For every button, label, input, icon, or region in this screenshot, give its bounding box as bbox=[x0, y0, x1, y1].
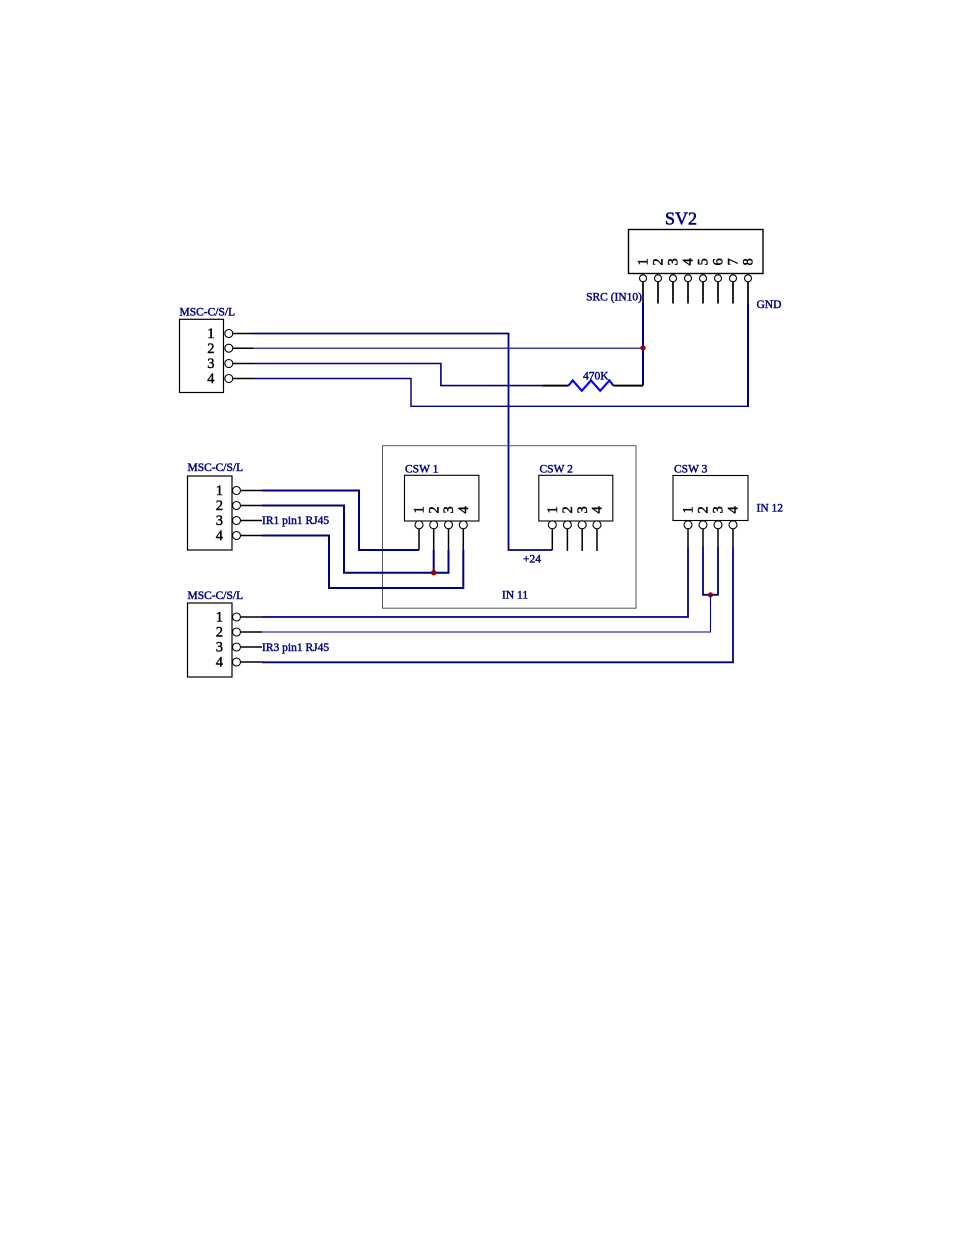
MSC3 pin stubs bbox=[241, 617, 263, 662]
svg-text:2: 2 bbox=[651, 258, 667, 265]
SV2 pin stubs bbox=[643, 282, 748, 304]
group box IN 11 bbox=[383, 446, 637, 609]
wire SRC net: SV2 pin1 down to resistor bbox=[642, 304, 644, 386]
SV2 pin circles bbox=[640, 275, 752, 282]
CSW2 pin circles bbox=[548, 521, 601, 529]
svg-text:3: 3 bbox=[711, 506, 727, 513]
svg-text:3: 3 bbox=[216, 513, 223, 529]
wire GND net: MSC1 pin4 to SV2 pin8 bbox=[253, 379, 748, 407]
connector MSC2 body bbox=[188, 476, 233, 550]
svg-text:4: 4 bbox=[456, 506, 472, 514]
MSC3 pin numbers 1-4 bbox=[216, 610, 224, 671]
wire CSW1 pin2 drop to junction bbox=[433, 550, 435, 573]
svg-text:2: 2 bbox=[426, 506, 442, 513]
svg-text:CSW 2: CSW 2 bbox=[540, 464, 574, 476]
svg-text:2: 2 bbox=[216, 498, 223, 514]
MSC3 pin circles bbox=[233, 613, 241, 666]
svg-text:3: 3 bbox=[441, 506, 457, 513]
connector MSC1 body bbox=[180, 319, 224, 392]
wire CSW3 pin2-pin3 bridge bbox=[703, 547, 718, 595]
svg-text:2: 2 bbox=[696, 506, 712, 513]
svg-text:MSC-C/S/L: MSC-C/S/L bbox=[188, 590, 244, 602]
svg-text:IN 11: IN 11 bbox=[502, 590, 528, 602]
svg-text:3: 3 bbox=[575, 506, 591, 513]
resistor 470K left lead bbox=[542, 385, 569, 387]
svg-text:CSW 3: CSW 3 bbox=[674, 464, 708, 476]
wire CSW3 junction to MSC3 pin2 bbox=[262, 595, 711, 632]
MSC1 pin numbers 1-4 bbox=[207, 326, 215, 387]
CSW2 pin stubs bbox=[552, 529, 597, 551]
svg-text:5: 5 bbox=[696, 258, 712, 265]
wire MSC1 pin2 to SRC junction bbox=[253, 347, 643, 349]
svg-text:1: 1 bbox=[681, 506, 697, 513]
svg-text:1: 1 bbox=[207, 326, 214, 342]
CSW1 pin stubs bbox=[419, 529, 463, 550]
svg-text:470K: 470K bbox=[583, 371, 609, 383]
svg-text:1: 1 bbox=[636, 258, 652, 265]
svg-text:SV2: SV2 bbox=[665, 209, 697, 229]
svg-text:1: 1 bbox=[216, 483, 223, 499]
svg-text:4: 4 bbox=[216, 655, 224, 671]
wire MSC1 pin3 to resistor left lead bbox=[253, 364, 542, 386]
svg-text:CSW 1: CSW 1 bbox=[405, 464, 439, 476]
svg-text:GND: GND bbox=[757, 299, 782, 311]
svg-text:2: 2 bbox=[207, 341, 214, 357]
CSW3 pin numbers 1-4 bbox=[681, 506, 742, 514]
svg-text:1: 1 bbox=[412, 506, 428, 513]
svg-text:+24: +24 bbox=[523, 554, 541, 566]
svg-text:SRC (IN10): SRC (IN10) bbox=[586, 292, 642, 304]
svg-text:MSC-C/S/L: MSC-C/S/L bbox=[180, 307, 236, 319]
resistor 470K right lead bbox=[613, 385, 643, 387]
wire CSW3 pin4 to MSC3 pin4 bbox=[262, 547, 733, 662]
junction dot CSW3 pins 2-3 bbox=[708, 592, 713, 597]
svg-text:8: 8 bbox=[741, 258, 757, 265]
resistor 470K body bbox=[569, 380, 614, 390]
svg-text:4: 4 bbox=[216, 528, 224, 544]
wire MSC2 pin2 to CSW1 pin3 bbox=[262, 506, 449, 573]
svg-text:4: 4 bbox=[207, 371, 215, 387]
MSC1 pin circles bbox=[225, 330, 233, 383]
svg-text:1: 1 bbox=[216, 610, 223, 626]
svg-text:IR1 pin1 RJ45: IR1 pin1 RJ45 bbox=[262, 515, 329, 527]
wire CSW3 pin1 to MSC3 pin1 bbox=[262, 547, 688, 617]
MSC1 pin stubs bbox=[233, 334, 254, 379]
switch CSW1 body bbox=[405, 475, 479, 521]
svg-text:7: 7 bbox=[726, 258, 742, 265]
CSW2 pin numbers 1-4 bbox=[545, 506, 606, 514]
svg-text:IR3 pin1 RJ45: IR3 pin1 RJ45 bbox=[262, 642, 329, 654]
svg-text:3: 3 bbox=[666, 258, 682, 265]
junction dot CSW1 pin2 bbox=[431, 570, 436, 575]
wire MSC1 pin1 to CSW2 pin1 bbox=[253, 334, 552, 551]
switch CSW2 body bbox=[539, 475, 613, 521]
svg-text:3: 3 bbox=[216, 640, 223, 656]
svg-text:4: 4 bbox=[590, 506, 606, 514]
svg-text:MSC-C/S/L: MSC-C/S/L bbox=[188, 462, 244, 474]
svg-text:4: 4 bbox=[681, 258, 697, 266]
connector SV2 body bbox=[629, 230, 764, 274]
svg-text:1: 1 bbox=[545, 506, 561, 513]
svg-text:2: 2 bbox=[560, 506, 576, 513]
CSW1 pin circles bbox=[415, 521, 467, 529]
switch CSW3 body bbox=[673, 476, 748, 521]
junction dot SRC net bbox=[640, 345, 645, 350]
wire MSC2 pin1 to CSW1 pin1 bbox=[262, 491, 419, 551]
CSW3 pin stubs bbox=[688, 529, 733, 547]
SV2 pin numbers 1-8 bbox=[636, 258, 757, 266]
MSC2 pin circles bbox=[233, 487, 241, 540]
wire MSC2 pin4 to CSW1 pin4 bbox=[262, 536, 463, 589]
connector MSC3 body bbox=[188, 603, 233, 677]
svg-text:6: 6 bbox=[711, 258, 727, 265]
CSW3 pin circles bbox=[684, 521, 737, 529]
MSC2 pin stubs bbox=[241, 491, 263, 536]
svg-text:4: 4 bbox=[726, 506, 742, 514]
CSW1 pin numbers 1-4 bbox=[412, 506, 472, 514]
svg-text:2: 2 bbox=[216, 625, 223, 641]
MSC2 pin numbers 1-4 bbox=[216, 483, 224, 544]
svg-text:IN 12: IN 12 bbox=[757, 503, 784, 515]
svg-text:3: 3 bbox=[207, 356, 214, 372]
